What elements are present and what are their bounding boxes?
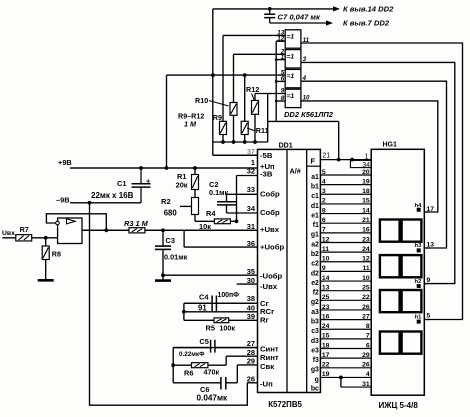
svg-text:1 М: 1 М: [184, 120, 197, 129]
svg-text:+9В: +9В: [58, 158, 72, 167]
svg-text:a2: a2: [311, 241, 319, 248]
svg-text:-3В: -3В: [260, 170, 273, 179]
svg-text:10к: 10к: [199, 222, 211, 231]
svg-text:d2: d2: [311, 270, 319, 277]
svg-text:1: 1: [281, 54, 285, 61]
svg-text:К572ПВ5: К572ПВ5: [268, 400, 302, 409]
svg-text:C1: C1: [117, 179, 126, 188]
svg-text:R8: R8: [52, 249, 61, 258]
svg-text:R11: R11: [256, 126, 269, 135]
svg-text:Uвх: Uвх: [2, 230, 15, 237]
svg-text:39: 39: [247, 312, 255, 321]
svg-text:23: 23: [362, 236, 370, 243]
svg-text:HG1: HG1: [383, 141, 398, 148]
svg-text:6: 6: [322, 217, 326, 224]
svg-text:20: 20: [362, 169, 370, 176]
svg-text:=1: =1: [286, 93, 294, 100]
svg-text:14: 14: [322, 275, 330, 282]
svg-text:e3: e3: [311, 347, 319, 354]
svg-text:8: 8: [322, 207, 326, 214]
svg-text:6: 6: [366, 342, 370, 349]
svg-text:26: 26: [362, 362, 370, 369]
svg-text:b2: b2: [311, 251, 319, 258]
svg-text:d1: d1: [311, 203, 319, 210]
svg-text:25: 25: [322, 294, 330, 301]
svg-text:b1: b1: [311, 184, 319, 191]
svg-text:+Uвх: +Uвх: [260, 225, 280, 234]
svg-text:31: 31: [247, 222, 255, 231]
svg-text:К выв.7 DD2: К выв.7 DD2: [343, 19, 390, 28]
svg-text:c3: c3: [311, 328, 319, 335]
svg-text:9: 9: [322, 265, 326, 272]
svg-text:e2: e2: [311, 280, 319, 287]
svg-text:c1: c1: [311, 193, 319, 200]
svg-text:18: 18: [362, 188, 370, 195]
svg-text:28: 28: [247, 348, 255, 357]
svg-text:8: 8: [366, 323, 370, 330]
svg-text:14: 14: [362, 207, 370, 214]
svg-text:31: 31: [362, 381, 370, 388]
svg-text:22мк х 16В: 22мк х 16В: [91, 191, 134, 200]
svg-text:R5: R5: [206, 323, 215, 332]
svg-text:30: 30: [247, 276, 255, 285]
svg-text:e1: e1: [311, 212, 319, 219]
svg-text:11: 11: [303, 37, 310, 44]
svg-text:35: 35: [247, 267, 255, 276]
svg-text:С7 0,047 мк: С7 0,047 мк: [278, 13, 322, 22]
svg-text:Rг: Rг: [260, 316, 269, 325]
svg-text:13: 13: [427, 241, 435, 248]
svg-text:–9В: –9В: [56, 196, 70, 205]
svg-text:34: 34: [362, 162, 370, 169]
svg-text:d3: d3: [311, 338, 319, 345]
svg-text:R9: R9: [213, 113, 222, 122]
svg-text:Свк: Свк: [260, 362, 274, 371]
svg-text:C3: C3: [166, 236, 175, 245]
svg-text:3: 3: [303, 56, 307, 63]
svg-text:f1: f1: [313, 222, 319, 229]
svg-text:34: 34: [247, 204, 256, 213]
svg-text:h2: h2: [415, 279, 423, 285]
svg-text:Собр: Собр: [260, 208, 280, 217]
svg-text:-5В: -5В: [260, 151, 273, 160]
svg-text:6: 6: [281, 76, 285, 83]
svg-text:R12: R12: [246, 85, 259, 94]
svg-text:b3: b3: [311, 319, 319, 326]
svg-text:Собр: Собр: [260, 190, 280, 199]
svg-text:R10: R10: [195, 96, 208, 105]
svg-text:18: 18: [322, 342, 330, 349]
svg-text:36: 36: [247, 239, 255, 248]
svg-text:C4: C4: [199, 293, 209, 302]
svg-text:=1: =1: [286, 53, 294, 60]
svg-text:15: 15: [322, 333, 330, 340]
svg-text:26: 26: [247, 374, 255, 383]
svg-text:0.1мк: 0.1мк: [209, 188, 229, 197]
svg-text:0.22мкФ: 0.22мкФ: [179, 351, 205, 358]
svg-text:29: 29: [247, 357, 255, 366]
svg-text:10: 10: [362, 275, 370, 282]
svg-text:24: 24: [362, 246, 370, 253]
svg-text:R3 1 М: R3 1 М: [124, 219, 149, 228]
svg-text:bc: bc: [311, 385, 319, 392]
svg-text:g2: g2: [311, 299, 319, 306]
svg-text:+: +: [146, 177, 151, 186]
svg-text:8: 8: [281, 95, 285, 102]
svg-text:16: 16: [322, 313, 330, 320]
svg-text:22: 22: [322, 362, 330, 369]
svg-text:10: 10: [303, 95, 310, 102]
svg-text:13: 13: [322, 284, 330, 291]
svg-text:4: 4: [366, 371, 370, 378]
svg-text:R2: R2: [161, 197, 171, 206]
svg-text:7: 7: [366, 333, 370, 340]
svg-text:a1: a1: [311, 174, 319, 181]
svg-text:26: 26: [362, 304, 370, 311]
svg-text:5: 5: [427, 313, 431, 320]
svg-text:f3: f3: [313, 357, 319, 364]
svg-text:33: 33: [247, 185, 255, 194]
svg-text:12: 12: [277, 35, 284, 42]
svg-text:0.01мк: 0.01мк: [164, 253, 188, 262]
svg-text:-Uвх: -Uвх: [260, 282, 278, 291]
svg-text:29: 29: [362, 352, 370, 359]
svg-text:DD1: DD1: [279, 142, 293, 149]
svg-text:17: 17: [322, 352, 330, 359]
svg-text:a3: a3: [311, 309, 319, 316]
svg-text:5: 5: [322, 169, 326, 176]
svg-text:37: 37: [247, 147, 255, 156]
svg-text:12: 12: [322, 236, 330, 243]
svg-text:7: 7: [322, 227, 326, 234]
svg-text:11: 11: [322, 246, 329, 253]
svg-text:=1: =1: [286, 34, 294, 41]
svg-text:4: 4: [322, 178, 326, 185]
svg-text:R6: R6: [184, 368, 193, 377]
svg-text:F: F: [311, 157, 316, 166]
svg-text:27: 27: [362, 313, 370, 320]
svg-text:C5: C5: [199, 337, 208, 346]
svg-text:f2: f2: [313, 290, 319, 297]
svg-text:16: 16: [362, 227, 370, 234]
svg-text:R4: R4: [206, 209, 216, 218]
svg-text:RCг: RCг: [260, 307, 274, 316]
svg-text:10: 10: [322, 256, 330, 263]
svg-text:15: 15: [362, 198, 370, 205]
svg-text:100к: 100к: [219, 323, 235, 332]
svg-text:g3: g3: [311, 367, 319, 374]
svg-text:25: 25: [362, 284, 370, 291]
svg-text:=1: =1: [286, 73, 294, 80]
svg-text:4: 4: [302, 75, 307, 82]
svg-text:12: 12: [362, 256, 370, 263]
svg-text:-Uобр: -Uобр: [260, 272, 283, 281]
svg-text:g: g: [315, 376, 319, 383]
svg-text:1: 1: [365, 153, 369, 160]
svg-text:К выв.14 DD2: К выв.14 DD2: [343, 4, 394, 13]
svg-text:-Uп: -Uп: [260, 379, 273, 388]
svg-text:9: 9: [427, 277, 431, 284]
svg-text:2: 2: [322, 198, 326, 205]
svg-text:38: 38: [247, 294, 255, 303]
svg-text:c2: c2: [311, 261, 319, 268]
svg-text:R7: R7: [20, 225, 29, 234]
svg-text:680: 680: [164, 209, 178, 218]
svg-text:DD2 К561ЛП2: DD2 К561ЛП2: [284, 110, 334, 119]
svg-text:22: 22: [362, 294, 370, 301]
svg-text:19: 19: [362, 178, 370, 185]
svg-text:0.047мк: 0.047мк: [197, 393, 229, 402]
svg-text:h3: h3: [415, 243, 423, 249]
svg-text:11: 11: [363, 265, 370, 272]
svg-text:3: 3: [322, 188, 326, 195]
svg-text:21: 21: [322, 153, 330, 160]
svg-text:g1: g1: [311, 232, 319, 239]
svg-text:23: 23: [322, 304, 330, 311]
svg-text:91: 91: [198, 304, 207, 313]
svg-text:Rинт: Rинт: [260, 353, 279, 362]
svg-text:+Uобр: +Uобр: [260, 243, 284, 252]
svg-text:470к: 470к: [204, 368, 220, 377]
svg-text:20к: 20к: [176, 180, 188, 189]
svg-text:19: 19: [322, 371, 330, 378]
svg-text:9: 9: [281, 88, 285, 95]
svg-text:ИЖЦ 5-4/8: ИЖЦ 5-4/8: [379, 401, 419, 410]
svg-text:100пФ: 100пФ: [218, 292, 240, 299]
svg-text:24: 24: [322, 323, 330, 330]
svg-text:A/#: A/#: [290, 167, 301, 176]
svg-text:21: 21: [362, 217, 370, 224]
